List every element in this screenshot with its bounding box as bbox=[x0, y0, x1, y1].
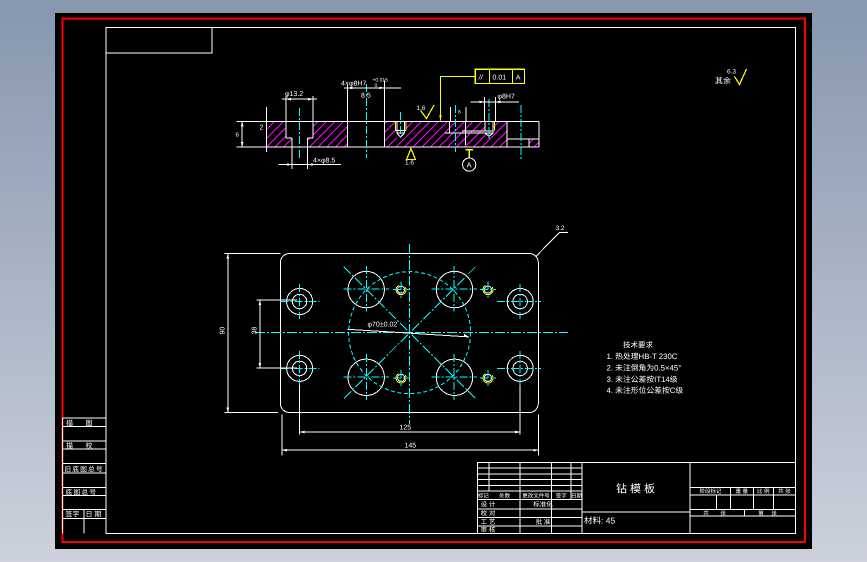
svg-text:张: 张 bbox=[771, 510, 777, 517]
svg-text:阶段标记: 阶段标记 bbox=[699, 488, 722, 495]
svg-text:签字: 签字 bbox=[556, 493, 568, 500]
svg-text:张: 张 bbox=[720, 510, 726, 517]
svg-text:2: 2 bbox=[260, 125, 264, 132]
svg-text:1. 热处理HB-T 230C: 1. 热处理HB-T 230C bbox=[607, 352, 678, 361]
svg-text:旧底图总号: 旧底图总号 bbox=[64, 466, 103, 474]
svg-text:设 计: 设 计 bbox=[481, 501, 496, 509]
svg-text:φ8H7: φ8H7 bbox=[498, 94, 515, 101]
svg-text:共: 共 bbox=[703, 510, 709, 517]
svg-text:日期: 日期 bbox=[571, 493, 583, 500]
svg-text:2. 未注倒角为0.5×45°: 2. 未注倒角为0.5×45° bbox=[607, 364, 682, 373]
svg-text:1.6: 1.6 bbox=[405, 160, 414, 167]
svg-text:3. 未注公差按IT14级: 3. 未注公差按IT14级 bbox=[607, 375, 678, 384]
svg-text:0: 0 bbox=[375, 83, 378, 89]
svg-text:38: 38 bbox=[252, 327, 259, 335]
svg-text:125: 125 bbox=[400, 424, 412, 431]
svg-text:审 核: 审 核 bbox=[481, 526, 496, 534]
svg-text:φ13.2: φ13.2 bbox=[285, 91, 303, 98]
svg-text:6.3: 6.3 bbox=[727, 69, 736, 76]
svg-text:4. 未注形位公差按C级: 4. 未注形位公差按C级 bbox=[607, 386, 684, 395]
svg-text:4×φ8H7: 4×φ8H7 bbox=[341, 81, 366, 88]
svg-text:材料: 45: 材料: 45 bbox=[584, 516, 615, 526]
svg-text:3.2: 3.2 bbox=[556, 225, 565, 232]
svg-text:重 量: 重 量 bbox=[736, 488, 749, 495]
svg-text:描图: 描图 bbox=[66, 420, 105, 428]
svg-text:0.01: 0.01 bbox=[493, 75, 507, 82]
svg-text:标准化: 标准化 bbox=[533, 501, 553, 509]
svg-text:技术要求: 技术要求 bbox=[623, 341, 653, 350]
svg-text:钻模板: 钻模板 bbox=[616, 483, 658, 496]
svg-text:标记: 标记 bbox=[478, 493, 490, 500]
svg-text:1.6: 1.6 bbox=[417, 105, 426, 112]
svg-text:更改文件号: 更改文件号 bbox=[522, 493, 550, 500]
svg-text:90: 90 bbox=[220, 327, 227, 335]
svg-text:描校: 描校 bbox=[66, 442, 105, 450]
svg-text:A: A bbox=[516, 75, 521, 82]
svg-text:签字: 签字 bbox=[65, 511, 79, 519]
svg-text:145: 145 bbox=[405, 442, 417, 449]
svg-text:工 艺: 工 艺 bbox=[481, 518, 496, 526]
svg-text:共 张: 共 张 bbox=[778, 488, 791, 495]
svg-text:日期: 日期 bbox=[86, 511, 104, 519]
svg-text:批 准: 批 准 bbox=[536, 518, 551, 526]
svg-text:6: 6 bbox=[458, 110, 461, 116]
svg-text:φ70±0.02: φ70±0.02 bbox=[368, 322, 398, 329]
svg-text:处数: 处数 bbox=[499, 493, 511, 500]
svg-text:校 对: 校 对 bbox=[481, 510, 496, 518]
svg-text:比 例: 比 例 bbox=[757, 488, 770, 495]
svg-text:底图总号: 底图总号 bbox=[65, 489, 97, 497]
svg-text:4×φ8.5: 4×φ8.5 bbox=[313, 158, 335, 165]
svg-text:A: A bbox=[467, 161, 472, 170]
svg-text:其余: 其余 bbox=[715, 77, 731, 86]
svg-text:第: 第 bbox=[758, 510, 764, 517]
svg-text:8.5: 8.5 bbox=[361, 93, 371, 100]
